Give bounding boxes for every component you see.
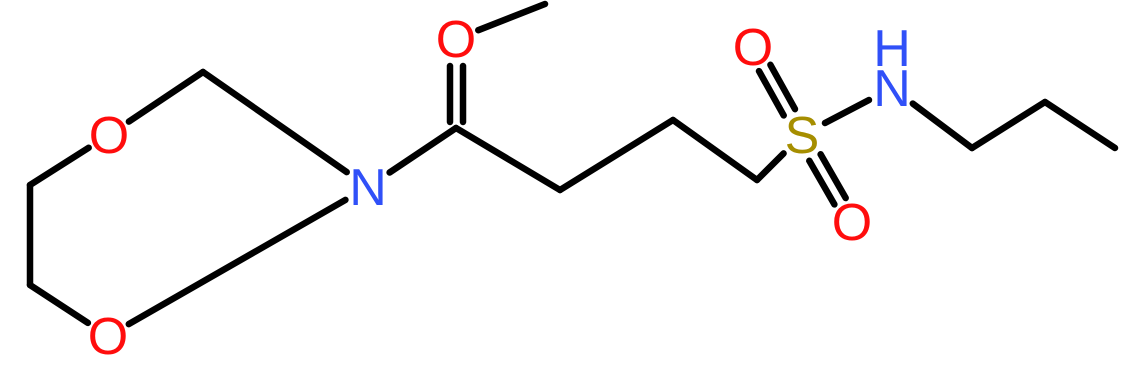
svg-text:S: S	[785, 107, 820, 165]
svg-text:O: O	[733, 19, 773, 77]
svg-text:O: O	[436, 11, 476, 69]
svg-text:O: O	[832, 194, 872, 252]
svg-text:N: N	[349, 159, 387, 217]
svg-text:H: H	[873, 20, 911, 78]
svg-text:O: O	[88, 308, 128, 366]
svg-text:O: O	[89, 107, 129, 165]
